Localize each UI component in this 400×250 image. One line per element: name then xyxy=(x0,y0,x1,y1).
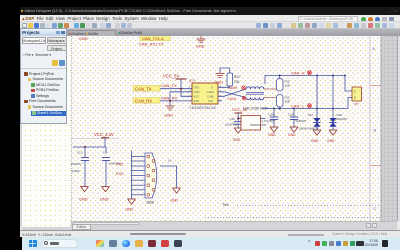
svg-text:C1C: C1C xyxy=(77,151,83,155)
wire CAN_TX to U1 pin1 xyxy=(160,88,192,90)
svg-text:3.3: 3.3 xyxy=(103,151,107,155)
svg-text:A: A xyxy=(373,46,376,51)
connector P1 xyxy=(352,87,362,101)
U2 value xyxy=(251,123,267,127)
svg-text:RXD: RXD xyxy=(194,99,200,103)
junction at VCC cap xyxy=(237,117,239,119)
svg-text:IC?: IC? xyxy=(189,79,195,83)
svg-text:GND: GND xyxy=(171,199,179,203)
wire U1 pin7 crossover to choke xyxy=(218,92,246,98)
svg-text:C2b: C2b xyxy=(269,113,275,117)
J1 designator DB9 xyxy=(147,201,154,205)
ground GND J1 shell xyxy=(172,188,180,193)
junction CAN_H at D2 xyxy=(332,75,334,77)
svg-text:CANH: CANH xyxy=(228,86,238,90)
no-ERC marker CAN_L xyxy=(308,104,312,108)
diode D1 TVS xyxy=(313,76,320,131)
svg-text:GND: GND xyxy=(79,198,88,202)
U1 pin numbers xyxy=(189,85,222,103)
F2 labels xyxy=(285,96,290,104)
capacitor C5 xyxy=(81,147,89,187)
junctions on CAN_L xyxy=(273,107,334,109)
svg-text:10K: 10K xyxy=(234,80,241,84)
net label CAN_RX (yellow) xyxy=(133,98,160,104)
title block divider line xyxy=(237,205,381,207)
net label CAN_RX on wire xyxy=(161,95,178,100)
wire R1 top to ground xyxy=(220,68,230,73)
svg-text:C2C: C2C xyxy=(230,117,236,121)
wire VCC_5V to U1 pin3 xyxy=(181,79,192,96)
R1 labels xyxy=(234,75,241,84)
U1 pin names xyxy=(194,86,215,104)
svg-text:CANL: CANL xyxy=(228,97,237,101)
net label CAN_RX top xyxy=(139,42,164,47)
svg-text:10R: 10R xyxy=(285,84,290,88)
no-ERC marker on CANH xyxy=(242,86,246,90)
zone letter B xyxy=(374,128,377,133)
net label CAN_H xyxy=(291,70,305,75)
resistor R1 xyxy=(227,73,233,86)
wire J1 bus to ground xyxy=(131,151,133,200)
zone divider A/B xyxy=(370,85,381,87)
no-ERC marker on CANL xyxy=(242,96,246,100)
svg-text:GND: GND xyxy=(311,139,319,143)
svg-text:GND: GND xyxy=(327,139,335,143)
svg-text:C: C xyxy=(374,206,377,211)
U1 designator IC? xyxy=(189,79,195,83)
net label CANH on crossover xyxy=(228,86,238,90)
diode D2 TVS xyxy=(329,76,336,131)
wire CAN_RX to U1 pin4 xyxy=(160,100,192,102)
svg-text:ESD05V: ESD05V xyxy=(337,117,348,121)
choke value CMC1206 xyxy=(243,107,269,111)
svg-text:4C50V: 4C50V xyxy=(71,169,80,173)
junction CAN_H mid xyxy=(316,75,318,77)
C2 labels xyxy=(288,113,306,123)
svg-text:GND: GND xyxy=(196,45,205,49)
capacitor C1 xyxy=(270,109,278,128)
svg-text:CAN_TX1.A: CAN_TX1.A xyxy=(142,36,164,41)
net label CAN_TX (yellow) xyxy=(133,86,160,92)
ground GND at R1 xyxy=(216,74,225,78)
wire U1 pin2 to ground xyxy=(170,92,192,106)
svg-text:R2C: R2C xyxy=(234,75,241,79)
title block Title text xyxy=(222,203,229,207)
svg-text:CAN_TX: CAN_TX xyxy=(161,83,177,88)
ground GND C4 xyxy=(234,128,242,133)
zone letter A xyxy=(373,46,376,51)
svg-text:CAN_L: CAN_L xyxy=(291,103,305,108)
J1 pin circles xyxy=(147,155,155,196)
svg-text:GND: GND xyxy=(100,198,109,202)
svg-text:TXD: TXD xyxy=(194,86,199,90)
svg-text:2: 2 xyxy=(354,96,356,100)
power port VCC_3.3V xyxy=(94,132,114,138)
power port VCC_5V left xyxy=(163,74,187,80)
svg-text:Title: Title xyxy=(222,203,229,207)
wire VCC to DC-DC input xyxy=(238,118,241,120)
P1 designator xyxy=(355,103,359,107)
C5 labels xyxy=(71,151,83,174)
ground GND C6 xyxy=(101,187,109,192)
svg-text:VCC_5V: VCC_5V xyxy=(232,107,248,112)
wire U1 pin6 crossover to choke xyxy=(218,89,246,96)
op-amp U1 TJA1050 transceiver body xyxy=(192,83,218,104)
svg-text:10uF/25V: 10uF/25V xyxy=(225,123,238,127)
D1 labels xyxy=(299,113,319,131)
junction CAN_H at F1 xyxy=(279,75,281,77)
net label GND top-left xyxy=(79,37,89,41)
net label TXD xyxy=(116,163,124,167)
svg-text:B0505S/1W: B0505S/1W xyxy=(251,123,267,127)
svg-text:VCC_3.3V: VCC_3.3V xyxy=(94,132,114,137)
svg-text:VCC_5V: VCC_5V xyxy=(163,74,179,79)
svg-text:P?: P? xyxy=(355,103,359,107)
ground GND C1 xyxy=(270,127,278,132)
svg-text:GND: GND xyxy=(233,138,241,142)
svg-text:CAN_RX: CAN_RX xyxy=(161,95,178,100)
svg-text:CANL: CANL xyxy=(207,95,215,99)
ground GND C2 xyxy=(290,127,298,132)
connector J1 DB9 body xyxy=(145,153,157,198)
fuse F1 xyxy=(277,79,284,92)
net label CAN_TX on wire xyxy=(161,83,177,88)
svg-text:GND: GND xyxy=(165,114,174,118)
fuse F2 xyxy=(277,95,284,108)
svg-text:10R: 10R xyxy=(285,100,290,104)
ground GND D2 xyxy=(329,130,337,135)
no-ERC marker CAN_H xyxy=(308,71,312,75)
title block second divider line xyxy=(205,217,381,219)
ground GND below U1 xyxy=(166,106,175,110)
ground GND J1 left xyxy=(127,199,135,204)
svg-text:GND: GND xyxy=(215,81,224,85)
svg-text:Vref: Vref xyxy=(208,99,213,103)
zone letter C xyxy=(374,206,377,211)
svg-text:DB9: DB9 xyxy=(147,201,154,205)
svg-text:RXD: RXD xyxy=(116,172,124,176)
sheet left border line xyxy=(71,36,73,227)
capacitor C2 xyxy=(290,109,298,128)
capacitor C6 xyxy=(102,158,110,187)
wire CAN_L rail xyxy=(262,98,352,109)
svg-text:TJA1050T/CM,118: TJA1050T/CM,118 xyxy=(189,106,216,110)
svg-text:1A: 1A xyxy=(168,159,172,163)
svg-text:CAN_RX: CAN_RX xyxy=(135,98,152,103)
svg-text:GND: GND xyxy=(288,133,296,137)
svg-text:B: B xyxy=(374,128,377,133)
inductor L1 common-mode choke xyxy=(246,87,264,100)
svg-text:CAN_H: CAN_H xyxy=(291,70,305,75)
svg-text:CAN_RX1.TX: CAN_RX1.TX xyxy=(139,42,164,47)
F1 labels xyxy=(285,80,290,88)
net label RXD xyxy=(116,172,124,176)
U1 pin5 stub xyxy=(218,100,222,102)
svg-text:1: 1 xyxy=(354,90,356,94)
svg-text:D1b: D1b xyxy=(308,113,314,117)
ground GND C5 xyxy=(80,187,88,192)
sheet inner margin line xyxy=(369,36,371,221)
svg-text:CANH: CANH xyxy=(207,90,215,94)
junction on CAN_TX wire xyxy=(180,88,182,90)
junction CAN_H corner xyxy=(344,75,346,77)
junction VCC3.3 rail xyxy=(84,146,86,148)
C6 labels xyxy=(103,151,121,166)
svg-text:104/50V: 104/50V xyxy=(296,119,307,123)
C4 labels xyxy=(225,117,238,127)
svg-text:GND: GND xyxy=(194,90,200,94)
svg-text:GND: GND xyxy=(126,208,134,212)
wire J1 shell to ground xyxy=(160,166,177,188)
junction on CAN_RX wire xyxy=(169,100,171,102)
wire CAN_H rail xyxy=(265,76,352,92)
svg-text:CAN_TX: CAN_TX xyxy=(135,86,152,91)
svg-text:GND·: GND· xyxy=(79,37,89,41)
U1 part value TJA1050T xyxy=(189,106,216,110)
svg-text:VCC: VCC xyxy=(194,95,200,99)
zone divider B/C xyxy=(370,165,381,167)
ground GND D1 xyxy=(313,130,321,135)
sheet right border line xyxy=(380,36,382,221)
DC-DC converter U2 B0505S xyxy=(241,116,261,131)
power port GND top xyxy=(197,36,206,43)
power port VCC_5V at DC-DC xyxy=(232,107,248,119)
choke right pins xyxy=(264,89,277,98)
svg-text:104/50V: 104/50V xyxy=(71,162,82,166)
net label CANL on crossover xyxy=(228,97,237,101)
svg-text:GND: GND xyxy=(268,133,276,137)
svg-text:TXD: TXD xyxy=(116,163,124,167)
C1 labels xyxy=(262,113,275,123)
J1 pin wires xyxy=(132,157,146,195)
wire R1 bottom to U1 pin8 xyxy=(218,86,230,87)
sheet zone divider horizontal xyxy=(71,138,119,140)
D2 labels xyxy=(337,113,348,121)
wire VCC_3.3V rail xyxy=(73,138,106,153)
J1 shell label xyxy=(168,159,172,163)
net label CAN_L xyxy=(291,103,305,108)
svg-text:S: S xyxy=(211,86,213,90)
capacitor C4 at DC-DC xyxy=(234,119,243,129)
svg-text:C1b: C1b xyxy=(288,113,294,117)
net label CAN_TX top (yellow highlight) xyxy=(140,35,170,41)
U2 output stub xyxy=(261,118,266,120)
